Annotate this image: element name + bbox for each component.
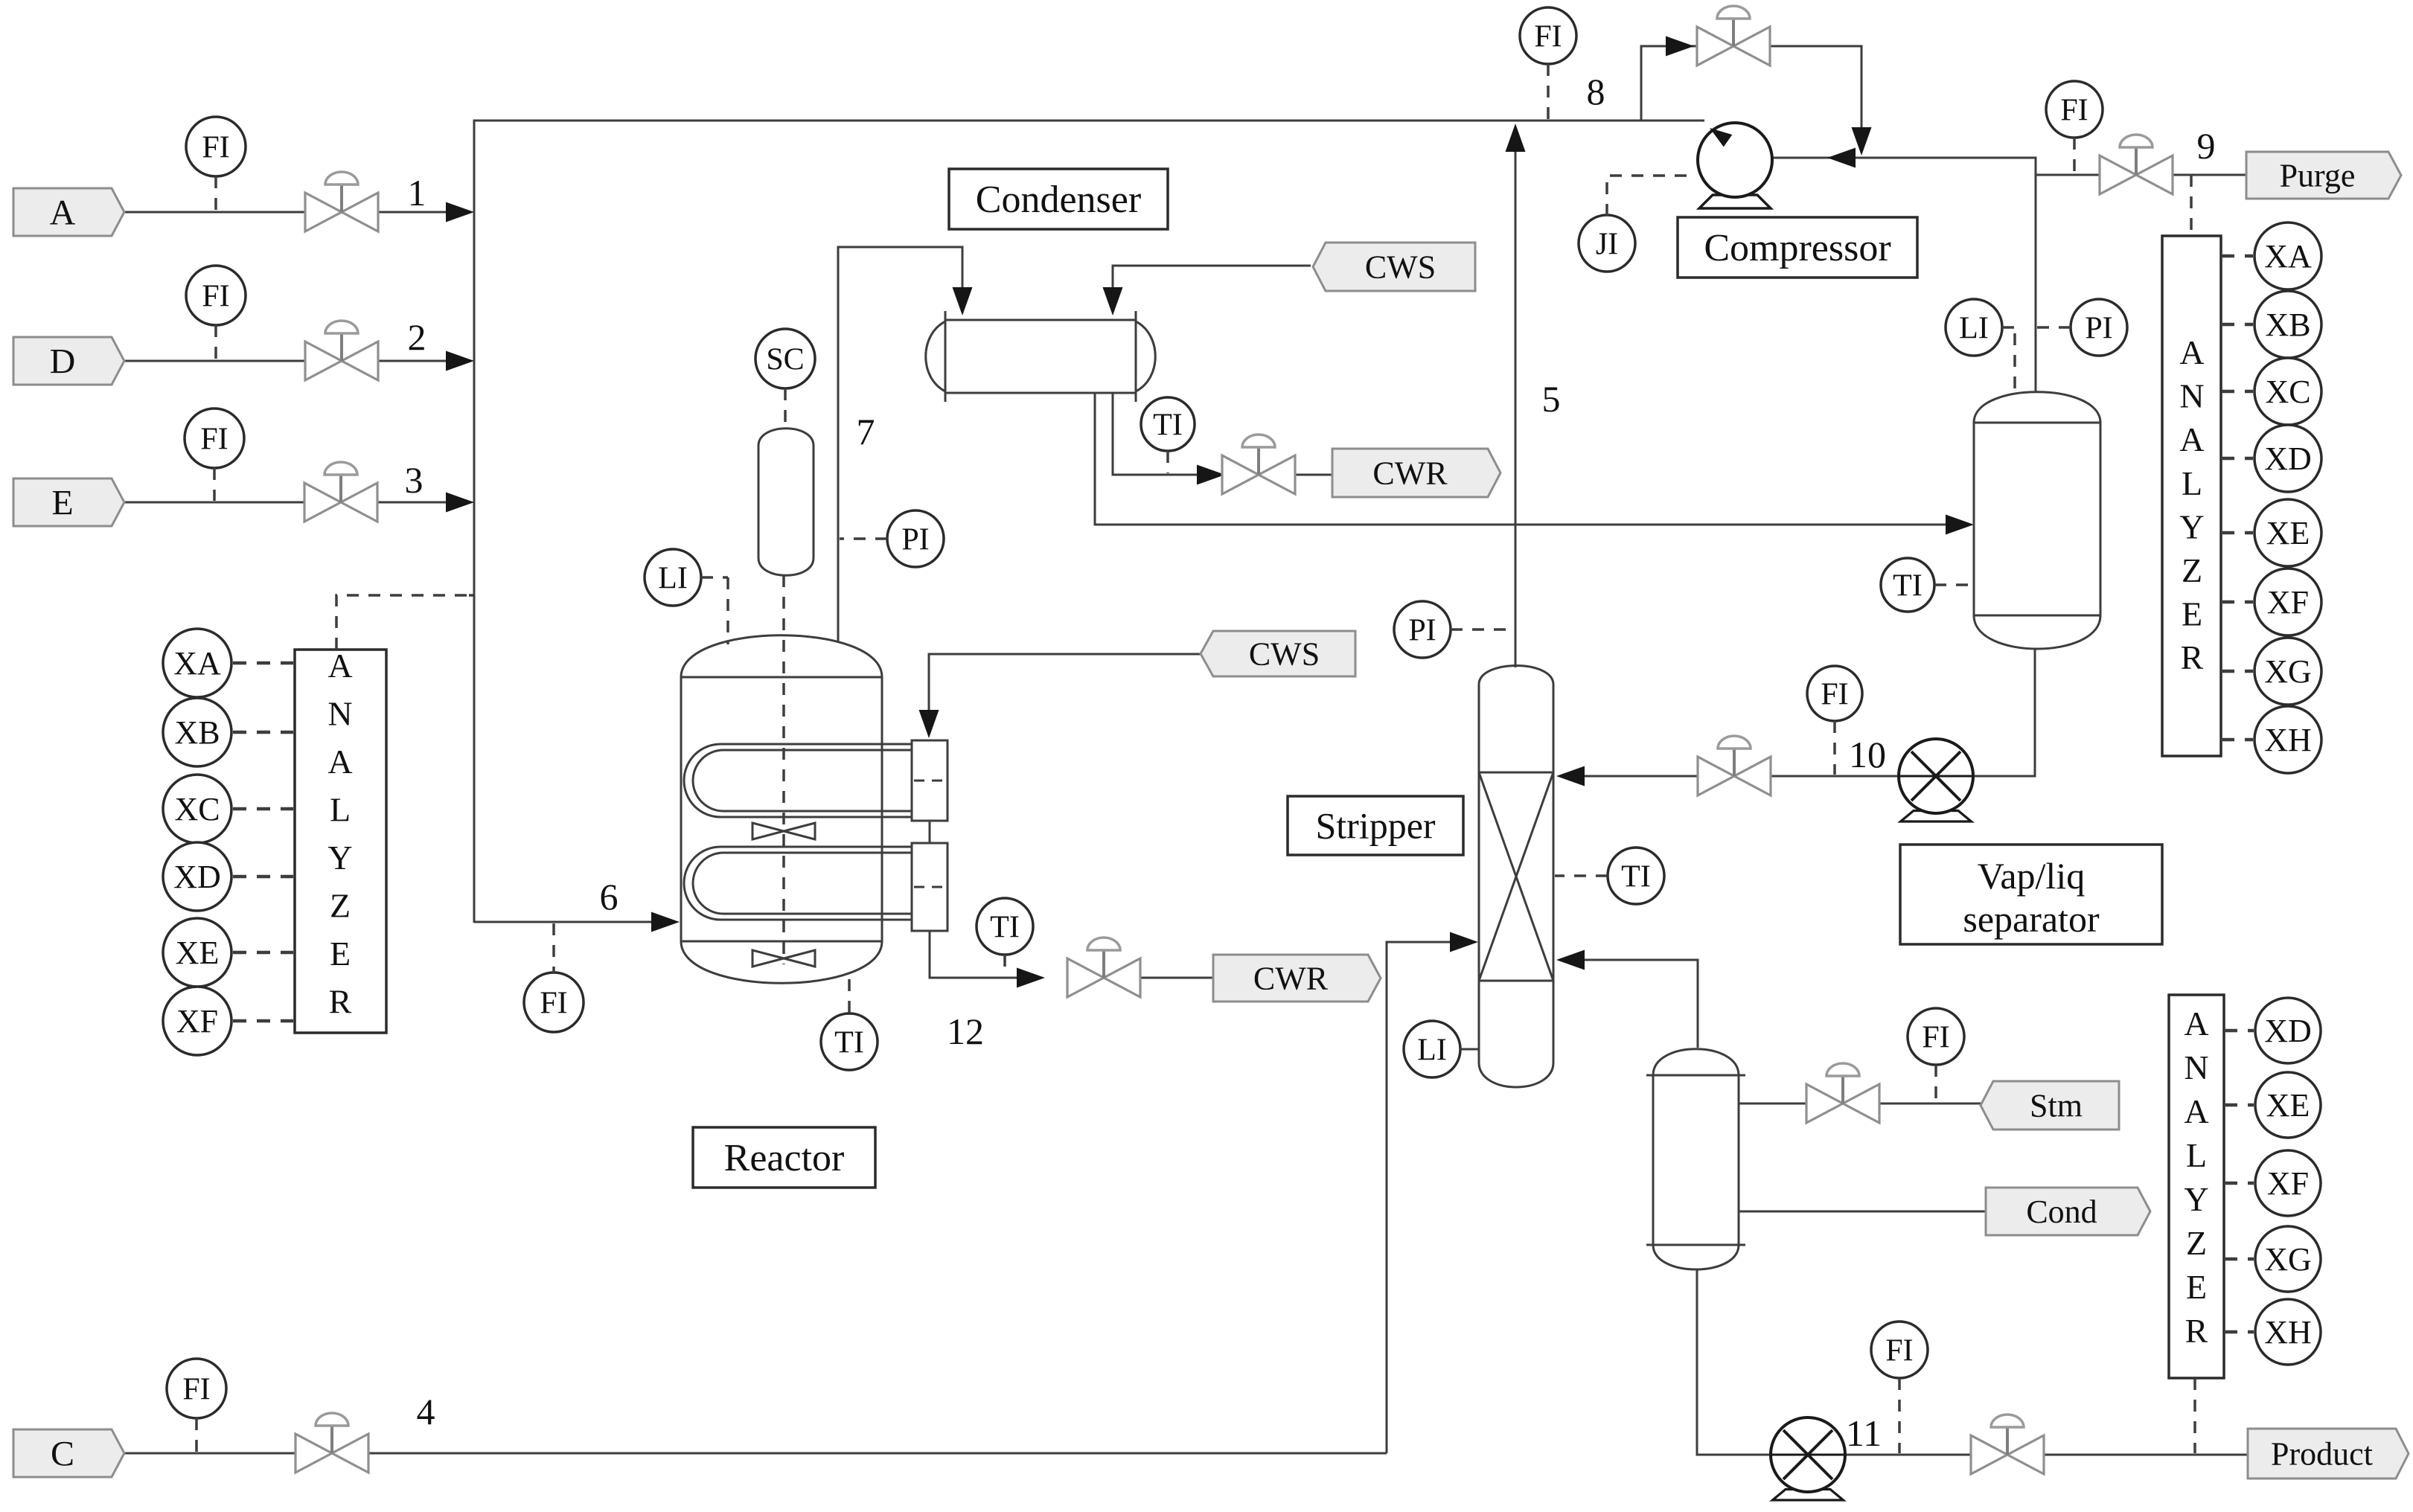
- wire left analyzer sample line: [336, 595, 474, 650]
- wire product analyzer sample line: [2193, 1378, 2196, 1453]
- svg-text:6: 6: [600, 876, 619, 917]
- instrument XC left analyzer: [163, 775, 293, 843]
- svg-text:N: N: [327, 695, 352, 733]
- svg-text:FI: FI: [1885, 1333, 1913, 1368]
- valve feed A control valve: [305, 172, 378, 231]
- node stream 3 label: [405, 459, 424, 501]
- svg-text:L: L: [2182, 464, 2202, 502]
- instrument XF purge analyzer: [2221, 568, 2321, 635]
- valve feed C control valve: [295, 1413, 368, 1473]
- svg-text:3: 3: [405, 459, 424, 501]
- svg-text:Vap/liq: Vap/liq: [1978, 855, 2085, 897]
- instrument SC speed controller: [755, 329, 815, 423]
- svg-text:XC: XC: [2265, 374, 2310, 410]
- svg-text:9: 9: [2197, 125, 2216, 167]
- svg-text:N: N: [2184, 1048, 2208, 1086]
- svg-text:XG: XG: [2264, 653, 2312, 690]
- flag CWS reactor coil: [1201, 631, 1355, 676]
- svg-text:XA: XA: [2264, 238, 2312, 275]
- instrument FI product flow: [1871, 1322, 1928, 1453]
- condenser shell: [926, 311, 1156, 402]
- wire separator bottoms drop leg: [1973, 649, 2035, 776]
- feed flag D: [13, 337, 124, 385]
- instrument XE left analyzer: [163, 918, 293, 987]
- svg-text:10: 10: [1849, 734, 1886, 775]
- valve stream 10 valve: [1698, 736, 1771, 795]
- svg-text:XF: XF: [176, 1003, 218, 1039]
- svg-text:XC: XC: [174, 791, 220, 827]
- svg-text:Stm: Stm: [2030, 1087, 2083, 1124]
- svg-text:A: A: [327, 743, 352, 781]
- svg-text:TI: TI: [990, 910, 1020, 944]
- svg-text:FI: FI: [540, 986, 567, 1020]
- wire reactor CWS inlet: [919, 654, 1214, 738]
- svg-text:TI: TI: [1153, 408, 1183, 442]
- instrument FI purge flow: [2046, 81, 2103, 173]
- separator vessel: [1974, 392, 2100, 649]
- svg-text:FI: FI: [1922, 1020, 1949, 1054]
- svg-text:XE: XE: [2266, 1087, 2310, 1124]
- svg-text:R: R: [329, 983, 352, 1021]
- svg-text:Stripper: Stripper: [1315, 805, 1435, 847]
- node stream 1 label: [408, 172, 426, 214]
- flag CWR condenser: [1332, 449, 1500, 497]
- node stream 8 label: [1587, 71, 1605, 112]
- svg-text:FI: FI: [1821, 677, 1848, 711]
- instrument XE product analyzer: [2224, 1072, 2321, 1138]
- svg-text:A: A: [2184, 1092, 2208, 1130]
- instrument XB left analyzer: [163, 698, 293, 766]
- reactor vessel: [681, 635, 882, 984]
- instrument XF left analyzer: [163, 987, 293, 1055]
- wire stripper boilup return: [1556, 950, 1698, 1048]
- valve reactor CWR valve stream 12: [1067, 938, 1140, 997]
- analyzer left box: [295, 647, 386, 1033]
- flag CWR reactor coil stream 12: [1213, 955, 1381, 1002]
- wire purge line from separator overhead: [2036, 174, 2246, 176]
- svg-text:XD: XD: [2264, 1013, 2312, 1049]
- instrument XD left analyzer: [163, 842, 293, 911]
- node stream 9 label: [2197, 125, 2216, 167]
- feed flag E: [13, 478, 124, 526]
- pump separator bottoms pump: [1899, 739, 1973, 821]
- svg-text:PI: PI: [2085, 311, 2112, 345]
- svg-text:TI: TI: [834, 1025, 864, 1060]
- svg-text:Purge: Purge: [2280, 157, 2356, 193]
- node stream 5 label: [1542, 378, 1561, 420]
- reactor label box: [693, 1127, 875, 1188]
- svg-text:CWS: CWS: [1365, 249, 1436, 285]
- svg-text:PI: PI: [901, 522, 929, 557]
- svg-text:XE: XE: [2266, 515, 2310, 551]
- wire coil coupling connector: [929, 821, 931, 843]
- svg-text:A: A: [2179, 333, 2204, 371]
- instrument XD product analyzer: [2224, 998, 2321, 1063]
- node stream 10 label: [1849, 734, 1886, 775]
- instrument FI feed D flow: [186, 266, 246, 359]
- wire condenser CWS inlet: [1103, 266, 1311, 315]
- analyzer purge box: [2162, 236, 2221, 756]
- wire feed line E: [125, 493, 474, 513]
- svg-text:Y: Y: [2184, 1180, 2208, 1218]
- node stream 4 label: [417, 1391, 435, 1432]
- svg-text:SC: SC: [766, 342, 804, 377]
- flag Cond: [1986, 1188, 2150, 1235]
- valve feed E control valve: [304, 462, 377, 522]
- pump product pump 11: [1771, 1417, 1845, 1500]
- svg-text:E: E: [51, 483, 73, 522]
- svg-text:XE: XE: [176, 935, 220, 971]
- instrument TI reactor temperature: [821, 979, 878, 1070]
- instrument XH product analyzer: [2224, 1299, 2321, 1365]
- wire purge analyzer sample line: [2190, 175, 2193, 234]
- instrument TI condenser outlet: [1141, 397, 1195, 473]
- svg-text:LI: LI: [658, 561, 688, 595]
- svg-text:XH: XH: [2264, 722, 2312, 758]
- svg-text:TI: TI: [1893, 568, 1923, 603]
- instrument PI separator pressure: [2037, 299, 2127, 356]
- instrument XG product analyzer: [2224, 1226, 2321, 1292]
- valve steam valve: [1806, 1063, 1879, 1123]
- svg-text:L: L: [2186, 1136, 2207, 1174]
- svg-text:Y: Y: [2179, 507, 2204, 545]
- instrument TI stripper temperature: [1555, 848, 1664, 904]
- wire stream 6 reactor feed: [474, 912, 680, 932]
- flag Product: [2248, 1429, 2409, 1479]
- svg-text:L: L: [330, 791, 351, 829]
- compressor unit: [1698, 123, 1772, 208]
- instrument FI steam flow: [1908, 1008, 1964, 1102]
- stripper column: [1479, 666, 1553, 1088]
- svg-text:12: 12: [947, 1010, 984, 1052]
- node stream 6 label: [600, 876, 619, 917]
- svg-text:Y: Y: [327, 839, 352, 877]
- svg-text:D: D: [50, 342, 76, 381]
- svg-text:Reactor: Reactor: [724, 1137, 845, 1179]
- wire reboiler steam line: [1739, 1103, 1993, 1105]
- instrument TI separator temperature: [1881, 558, 1972, 612]
- svg-text:TI: TI: [1621, 859, 1651, 894]
- valve condenser CWR valve: [1222, 435, 1295, 494]
- wire reactor CWR outlet stream 12: [930, 931, 1213, 988]
- node stream 12 label: [947, 1010, 984, 1052]
- instrument FI reactor feed flow: [524, 923, 584, 1032]
- wire product line stream 11: [1845, 1454, 2248, 1456]
- instrument XF product analyzer: [2224, 1150, 2321, 1216]
- instrument XC purge analyzer: [2221, 358, 2321, 425]
- svg-text:XD: XD: [173, 859, 221, 895]
- svg-text:FI: FI: [2060, 93, 2088, 127]
- analyzer product box: [2169, 995, 2224, 1378]
- node stream 11 label: [1846, 1412, 1882, 1454]
- valve product valve: [1971, 1415, 2044, 1474]
- svg-text:XB: XB: [174, 714, 220, 751]
- reactor agitator shaft: [782, 575, 785, 964]
- instrument XG purge analyzer: [2221, 638, 2321, 705]
- svg-text:E: E: [330, 935, 351, 973]
- svg-text:1: 1: [408, 172, 426, 214]
- svg-text:A: A: [2179, 420, 2204, 458]
- svg-text:XG: XG: [2264, 1241, 2312, 1278]
- instrument FI stream 10 flow: [1807, 666, 1862, 775]
- reactor cooling coil lower bank: [684, 847, 912, 920]
- wire main feed header (node mixing A,D,E into recycle header): [474, 121, 1704, 923]
- svg-text:Z: Z: [2186, 1224, 2207, 1262]
- instrument LI separator level: [1946, 299, 2015, 391]
- flag Stm: [1981, 1081, 2119, 1130]
- stripper label box: [1288, 796, 1463, 855]
- svg-text:XH: XH: [2264, 1314, 2312, 1351]
- instrument FI feed E flow: [185, 409, 244, 501]
- wire reboiler condensate line: [1739, 1211, 1986, 1213]
- instrument FI feed C flow: [167, 1359, 226, 1452]
- svg-text:separator: separator: [1963, 898, 2100, 940]
- svg-text:Cond: Cond: [2026, 1194, 2097, 1230]
- feed flag C: [13, 1429, 124, 1477]
- wire condenser outlet to vap/liq separator: [1095, 393, 1974, 535]
- svg-text:CWR: CWR: [1253, 960, 1329, 996]
- svg-text:FI: FI: [182, 1372, 210, 1406]
- reactor cooling coil upper bank: [684, 744, 912, 817]
- svg-text:N: N: [2179, 377, 2204, 415]
- flag Purge: [2246, 152, 2401, 199]
- wire stream 8 compressor bypass: [1641, 36, 1872, 156]
- svg-text:R: R: [2181, 638, 2204, 676]
- svg-text:PI: PI: [1408, 613, 1436, 647]
- svg-text:XF: XF: [2267, 1165, 2309, 1202]
- reactor coil lower coupling box: [912, 843, 947, 931]
- instrument XB purge analyzer: [2221, 291, 2321, 358]
- instrument XA purge analyzer: [2221, 222, 2321, 289]
- wire stream 10 separator bottoms to stripper: [1556, 766, 1899, 787]
- wire stream 7 reactor overhead to condenser: [838, 247, 973, 641]
- wire stripper feed riser: [1387, 932, 1478, 1454]
- node stream 7 label: [857, 411, 875, 452]
- svg-text:CWR: CWR: [1372, 455, 1448, 491]
- svg-text:FI: FI: [202, 279, 229, 313]
- svg-text:LI: LI: [1959, 311, 1989, 345]
- svg-text:C: C: [51, 1434, 74, 1473]
- feed flag A: [13, 188, 124, 236]
- svg-text:A: A: [327, 647, 352, 685]
- reboiler vessel: [1646, 1049, 1745, 1269]
- svg-text:LI: LI: [1417, 1033, 1447, 1067]
- instrument XA left analyzer: [163, 629, 293, 697]
- wire feed line A: [125, 202, 474, 222]
- svg-text:8: 8: [1587, 71, 1605, 112]
- condenser label box: [949, 169, 1168, 229]
- wire stream 5 riser from stripper overhead to recycle header: [1506, 124, 1526, 667]
- instrument XH purge analyzer: [2221, 706, 2321, 773]
- reactor agitator impeller lower: [752, 950, 815, 967]
- wire feed line D: [125, 351, 474, 371]
- svg-text:XD: XD: [2264, 441, 2312, 477]
- svg-text:Z: Z: [330, 887, 351, 925]
- svg-text:E: E: [2182, 595, 2202, 633]
- reactor coil upper coupling box: [912, 740, 947, 821]
- instrument FI feed A flow: [186, 117, 246, 211]
- instrument XE purge analyzer: [2221, 499, 2321, 566]
- wire compressor suction from separator overhead: [1734, 148, 2036, 393]
- svg-text:XF: XF: [2267, 584, 2309, 621]
- svg-text:CWS: CWS: [1249, 635, 1320, 672]
- svg-text:FI: FI: [1534, 19, 1562, 54]
- svg-text:Condenser: Condenser: [976, 179, 1141, 221]
- svg-text:11: 11: [1846, 1412, 1882, 1454]
- instrument PI stripper pressure: [1394, 601, 1514, 658]
- svg-text:A: A: [2184, 1005, 2208, 1042]
- svg-text:FI: FI: [200, 422, 228, 456]
- wire reboiler bottoms to product pump: [1697, 1269, 1771, 1455]
- node stream 2 label: [408, 316, 426, 358]
- instrument PI reactor pressure: [840, 510, 944, 567]
- svg-text:Product: Product: [2271, 1435, 2373, 1472]
- svg-text:A: A: [50, 193, 76, 232]
- valve feed D control valve: [305, 321, 378, 380]
- svg-text:7: 7: [857, 411, 875, 452]
- compressor label box: [1678, 217, 1917, 278]
- flag CWS condenser: [1313, 243, 1475, 291]
- svg-text:5: 5: [1542, 378, 1561, 420]
- valve purge valve: [2100, 135, 2173, 194]
- svg-text:E: E: [2186, 1268, 2207, 1306]
- instrument TI reactor coolant outlet: [977, 898, 1033, 976]
- svg-text:4: 4: [417, 1391, 435, 1432]
- instrument XD purge analyzer: [2221, 425, 2321, 492]
- instrument LI reactor level: [645, 549, 728, 644]
- separator label box: [1900, 845, 2162, 944]
- svg-text:2: 2: [408, 316, 426, 358]
- svg-text:JI: JI: [1596, 227, 1618, 261]
- svg-text:Compressor: Compressor: [1704, 227, 1891, 269]
- valve compressor bypass valve: [1697, 6, 1770, 65]
- svg-text:XA: XA: [173, 645, 221, 682]
- instrument JI compressor power: [1579, 176, 1696, 272]
- instrument FI recycle flow: [1520, 7, 1576, 119]
- wire stream 4 C feed line: [125, 1452, 1387, 1455]
- reactor agitator impeller upper: [752, 823, 815, 839]
- svg-text:Z: Z: [2182, 551, 2202, 589]
- svg-text:R: R: [2185, 1312, 2208, 1350]
- wire condenser CWR outlet: [1113, 393, 1332, 485]
- instrument LI stripper level: [1404, 1021, 1479, 1077]
- reactor agitator motor capsule: [758, 429, 814, 576]
- svg-text:FI: FI: [202, 130, 229, 164]
- svg-text:XB: XB: [2265, 307, 2310, 343]
